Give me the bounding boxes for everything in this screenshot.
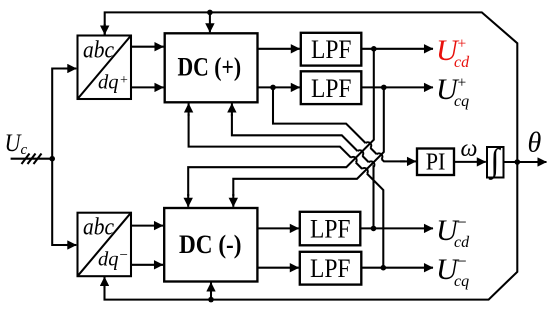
svg-text:LPF: LPF — [310, 254, 351, 283]
svg-text:−: − — [457, 212, 467, 232]
svg-text:LPF: LPF — [311, 74, 352, 103]
block PI regulator — [417, 149, 454, 176]
wire DC(+) q output to LPF2 — [258, 86, 300, 88]
block LPF1 — [301, 33, 362, 66]
svg-text:DC (-): DC (-) — [179, 230, 242, 259]
svg-text:LPF: LPF — [310, 215, 351, 244]
svg-text:cq: cq — [454, 93, 469, 110]
wire path D: U-cq cross-feed up to DC(+) input 1 (with hops) — [189, 114, 384, 268]
svg-text:+: + — [120, 73, 128, 88]
junction dot J2 — [381, 85, 387, 91]
junction dot theta to DC(-) — [208, 297, 214, 303]
wire path A: U+cd cross-feed down to DC(-) input 1 — [188, 49, 374, 196]
wire LPF1 output to U+cd — [361, 48, 433, 50]
three-phase hatch marks — [22, 154, 42, 165]
block integrator — [487, 143, 504, 180]
label U+cd output (red) — [436, 34, 470, 71]
wire abc/dq- d output to DC(-) — [131, 225, 163, 227]
block DC(-) decoupling cell — [164, 208, 257, 282]
junction dot J1 — [371, 46, 377, 52]
block DC(+) decoupling cell — [165, 33, 258, 102]
svg-text:dq: dq — [98, 72, 119, 94]
block abc/dq+ transform — [78, 36, 132, 100]
block LPF3 — [300, 212, 361, 246]
wire path E: q+ tap to PI (with hops) — [273, 87, 405, 161]
wire DC(+) d output to LPF1 — [258, 48, 300, 50]
svg-text:+: + — [458, 36, 467, 53]
wire abc/dq+ d output to DC(+) — [131, 46, 164, 48]
wire theta output — [504, 161, 547, 163]
svg-text:−: − — [457, 251, 467, 271]
svg-text:ω: ω — [461, 136, 478, 162]
wire theta feedback loop (top line, right chamfered side, bottom line) — [105, 12, 518, 299]
svg-text:DC (+): DC (+) — [178, 53, 242, 82]
wire arrow theta into DC(+) top — [209, 12, 211, 32]
svg-text:−: − — [120, 248, 128, 264]
svg-text:dq: dq — [98, 249, 119, 271]
svg-text:LPF: LPF — [311, 35, 352, 64]
wire Uc input — [11, 158, 53, 160]
svg-text:cd: cd — [454, 234, 470, 251]
wire Uc to abc/dq+ — [52, 69, 65, 159]
svg-text:PI: PI — [426, 149, 446, 175]
label U-cd output — [436, 212, 470, 251]
wire PI to integrator — [454, 161, 486, 163]
junction dot theta to DC(+) — [207, 10, 213, 16]
wire LPF2 output to U+cq — [361, 86, 433, 88]
block abc/dq- transform — [78, 213, 132, 277]
svg-text:θ: θ — [528, 128, 542, 159]
block LPF2 — [301, 71, 362, 104]
node Uc input label — [5, 130, 28, 158]
svg-text:abc: abc — [83, 38, 114, 64]
junction dot Uc split — [49, 156, 55, 162]
junction dot theta feedback — [515, 159, 521, 165]
wire abc/dq+ q output to DC(+) — [131, 86, 164, 88]
svg-text:c: c — [21, 142, 28, 158]
wire LPF4 output to U-cq — [361, 267, 433, 269]
wire DC(-) d output to LPF3 — [257, 227, 298, 229]
label U-cq output — [436, 251, 469, 290]
wire arrow theta into DC(-) bottom — [210, 283, 212, 300]
svg-text:cq: cq — [454, 273, 469, 290]
wire Uc to abc/dq- — [52, 159, 65, 245]
junction dot q+ tap — [270, 85, 276, 91]
wire DC(-) q output to LPF4 — [257, 267, 298, 269]
svg-text:cd: cd — [454, 54, 470, 71]
svg-text:+: + — [458, 75, 467, 92]
wire arrow into abc/dq+ top — [104, 24, 106, 35]
junction dot J3 — [371, 226, 377, 232]
wire abc/dq- q output to DC(-) — [131, 264, 163, 266]
svg-text:abc: abc — [83, 215, 114, 241]
block LPF4 — [300, 252, 362, 285]
junction dot J4 — [381, 265, 387, 271]
wire LPF3 output to U-cd — [360, 227, 433, 229]
wire path B: U+cq cross-feed down to DC(-) input 2 — [233, 87, 383, 196]
wire path C: U-cd cross-feed up to DC(+) input 2 (with hops) — [232, 114, 374, 228]
wire arrow theta into abc/dq- bottom — [103, 277, 105, 288]
label U+cq output — [436, 73, 469, 110]
